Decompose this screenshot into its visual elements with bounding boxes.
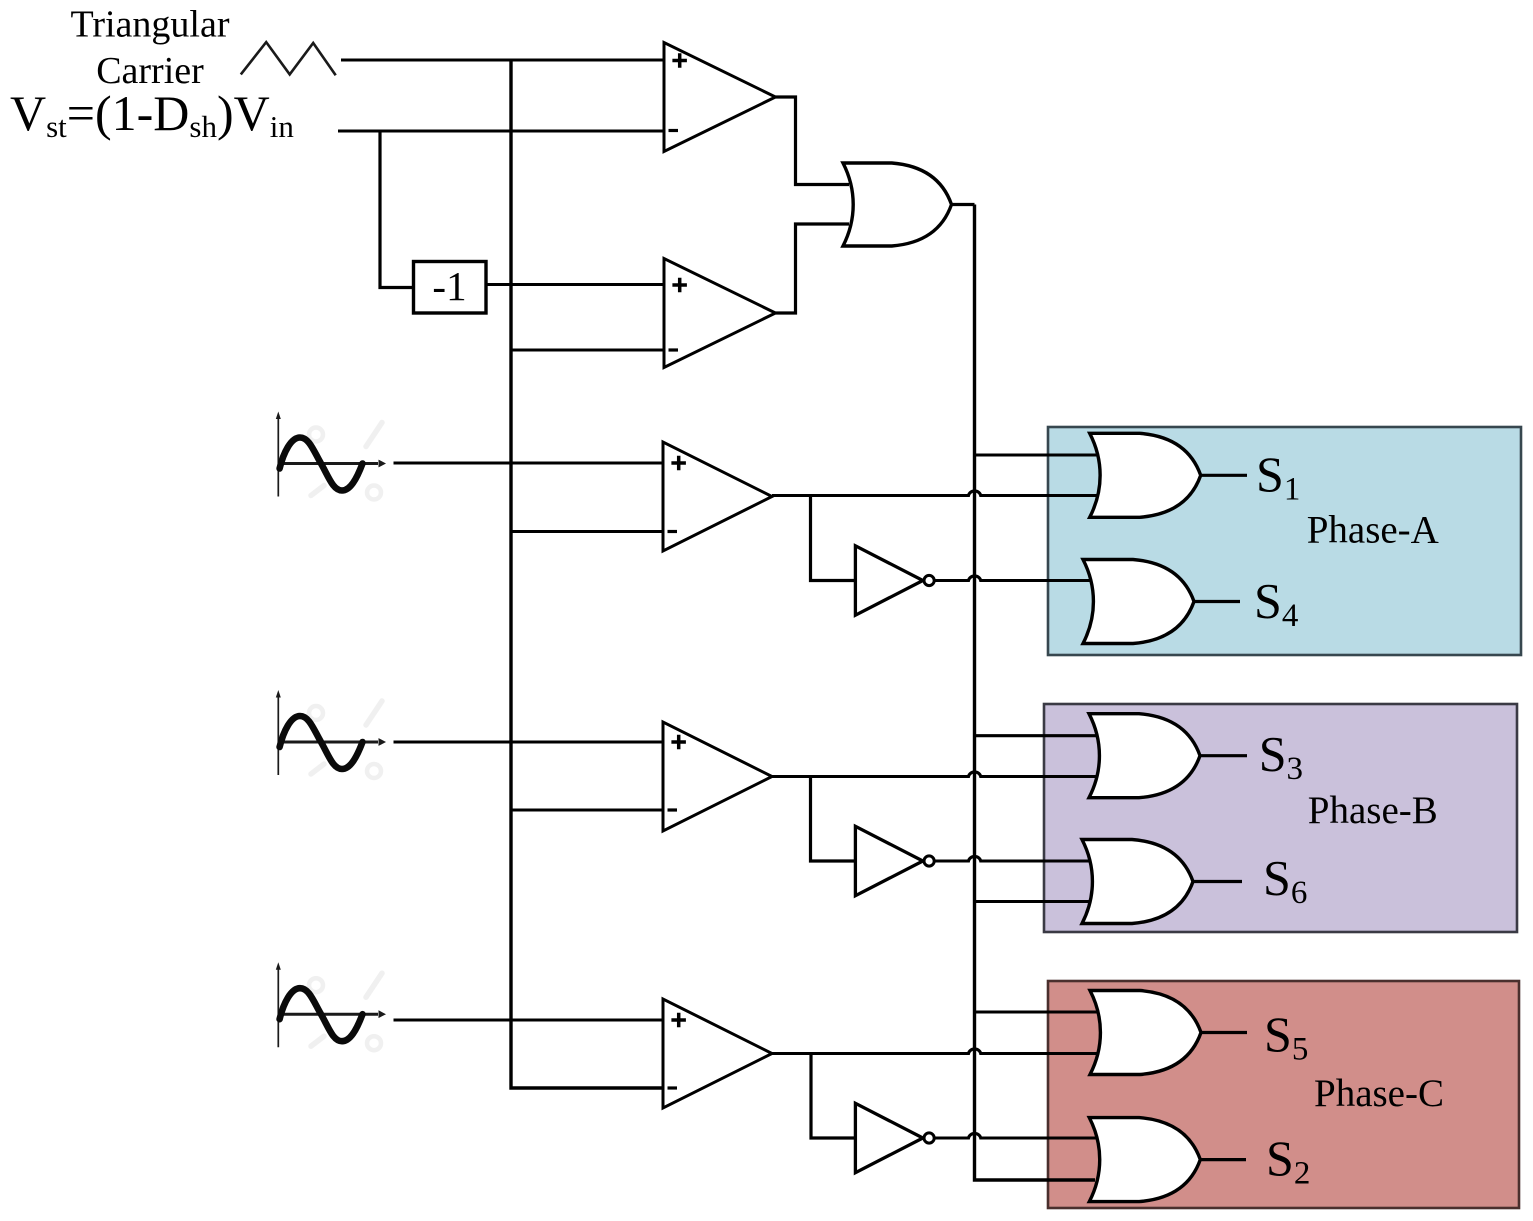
wire: comparator A output to S1 bottom input (hops bus)	[772, 491, 1098, 496]
wire: bus to S3 gate top input	[975, 734, 1097, 737]
wire: S3 gate output	[1200, 754, 1247, 757]
wire: U2 output to OR gate bottom input	[776, 224, 850, 313]
Phase-A box	[1048, 427, 1521, 655]
wire: branch comparator B output down to NOT B	[811, 777, 856, 862]
wire: NOT A output to S4 top input (hops bus)	[935, 576, 1090, 581]
wire: S6 gate output	[1193, 880, 1242, 883]
wire: branch comparator C output down to NOT C	[811, 1054, 855, 1139]
wire: -1 block output to comparator U2 +	[486, 283, 664, 286]
comparator B	[663, 722, 772, 831]
OR gate S6	[1082, 840, 1193, 924]
sine reference C: watermark marks	[309, 973, 382, 1050]
comparator A	[663, 442, 772, 551]
wire: bus to comparator U2 - input	[511, 348, 664, 351]
gain block -1	[414, 262, 487, 314]
wire: branch comparator A output down to NOT A	[811, 496, 856, 581]
wire: S1 gate output	[1201, 474, 1247, 477]
sine reference B: watermark marks	[309, 701, 382, 778]
wire: S4 gate output	[1194, 600, 1240, 603]
wire: shoot-through bus vertical, ends at S2 lower input	[975, 205, 1096, 1181]
comparator U1 (carrier vs Vst)	[664, 43, 776, 152]
wire: comparator B output to S3 bottom input (hops bus)	[772, 772, 1098, 777]
sine reference A: watermark marks	[309, 423, 382, 500]
wire: Vst branch to -1 block	[380, 131, 414, 288]
Phase-C box	[1048, 981, 1519, 1208]
wire: OR gate G0 output to shoot-through bus	[952, 203, 975, 206]
wire: bus to S1 gate top input	[975, 453, 1098, 456]
wire: NOT B output to S6 top input (hops bus)	[935, 856, 1089, 861]
wire: sine C to comparator + input	[394, 1018, 664, 1021]
comparator U2 (-Vst vs carrier)	[664, 259, 776, 368]
svg-text:-1: -1	[432, 263, 466, 309]
NOT gate A	[855, 546, 934, 615]
svg-text:Triangular: Triangular	[70, 4, 229, 46]
sine reference A: axes	[278, 417, 378, 497]
svg-text:Phase-B: Phase-B	[1308, 789, 1438, 832]
wire: Vst to comparator U1 -	[338, 129, 664, 132]
Phase-B box	[1044, 704, 1517, 932]
OR gate S5	[1090, 991, 1201, 1075]
svg-text:Phase-A: Phase-A	[1307, 509, 1439, 552]
NOT gate B	[855, 826, 934, 895]
OR gate S1	[1090, 433, 1201, 517]
sine reference B: axes	[278, 695, 378, 775]
OR gate S2	[1089, 1118, 1200, 1202]
svg-text:Phase-C: Phase-C	[1314, 1072, 1444, 1115]
wire: S2 gate output	[1200, 1158, 1246, 1161]
sine reference C: sine wave	[280, 988, 363, 1041]
NOT gate C	[855, 1103, 934, 1172]
wire: carrier to comparator U1 +	[341, 58, 664, 61]
wire: sine A to comparator + input	[394, 461, 664, 464]
wire: U1 output to OR gate top input	[776, 97, 850, 185]
OR gate S3	[1089, 714, 1200, 798]
sine reference B: sine wave	[280, 716, 363, 769]
OR gate G0 (shoot-through)	[843, 163, 952, 246]
wire: comparator C output to S5 bottom input (hops bus)	[772, 1049, 1098, 1054]
wire: bus to S6 gate bottom input	[975, 900, 1090, 903]
wire: carrier bus vertical	[511, 60, 663, 1088]
wire: sine B to comparator + input	[394, 740, 664, 743]
sine reference C: axes	[278, 967, 378, 1047]
OR gate S4	[1083, 560, 1194, 644]
wire: S5 gate output	[1201, 1031, 1247, 1034]
sine reference A: sine wave	[280, 438, 363, 491]
comparator C	[663, 999, 772, 1108]
wire: bus to comparator A - input	[511, 530, 663, 533]
wire: bus to S5 gate top input	[975, 1010, 1098, 1013]
triangular carrier waveform icon	[241, 42, 336, 75]
wire: bus to comparator B - input	[511, 808, 663, 811]
wire: NOT C output to S2 top input (hops bus)	[935, 1133, 1096, 1138]
